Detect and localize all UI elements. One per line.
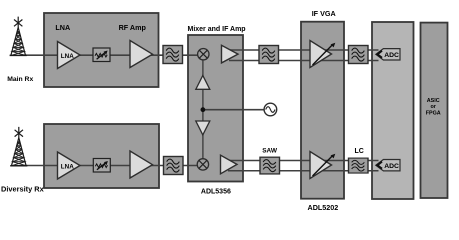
- amplifier: IF VGA (diversity): [310, 152, 332, 179]
- amplifier: IF amp (main): [222, 45, 239, 63]
- svg-text:Mixer and IF Amp: Mixer and IF Amp: [188, 26, 246, 33]
- svg-text:ADL5356: ADL5356: [201, 188, 231, 195]
- attenuator (main): [93, 48, 110, 62]
- svg-text:Main Rx: Main Rx: [7, 76, 33, 83]
- amplifier: LNA (main): [58, 42, 81, 69]
- attenuator (diversity): [93, 159, 110, 173]
- amplifier: LNA (diversity): [58, 152, 81, 179]
- amplifier: IF amp (diversity): [221, 155, 238, 174]
- mixer (diversity): [197, 159, 208, 170]
- svg-text:RF Amp: RF Amp: [119, 23, 147, 32]
- svg-text:IF VGA: IF VGA: [312, 9, 336, 18]
- oscillator: LO: [264, 103, 277, 116]
- svg-text:LNA: LNA: [61, 53, 74, 60]
- filter: anti-alias (main): [349, 46, 369, 64]
- block: ADC container: [372, 22, 414, 199]
- wire: LO chain vertical: [202, 58, 204, 159]
- block: Mixer and IF Amp ADL5356: [188, 35, 243, 182]
- antenna: Main Rx: [10, 17, 27, 56]
- svg-text:LNA: LNA: [61, 164, 74, 171]
- amplifier: IF VGA (main): [310, 41, 332, 68]
- filter: RF bandpass (diversity): [164, 157, 184, 175]
- node: LO junction: [201, 107, 206, 112]
- filter: SAW (diversity): [260, 157, 280, 174]
- svg-text:FPGA: FPGA: [426, 111, 441, 117]
- filter: LC (diversity): [349, 158, 369, 173]
- block: LNA / RF Amp (diversity): [44, 124, 159, 188]
- svg-text:SAW: SAW: [262, 147, 278, 154]
- amplifier: RF Amp (main): [130, 41, 153, 68]
- block: IF VGA ADL5202: [301, 22, 344, 199]
- wire: diversity IF differential pair: [228, 161, 379, 171]
- svg-text:Diversity Rx: Diversity Rx: [1, 184, 45, 193]
- filter: IF bandpass (main): [259, 46, 279, 64]
- ADC (diversity): [376, 160, 400, 171]
- amplifier: LO buffer down: [196, 121, 210, 135]
- svg-text:or: or: [430, 104, 436, 110]
- svg-text:ADL5202: ADL5202: [308, 203, 339, 212]
- svg-text:LC: LC: [355, 148, 364, 155]
- amplifier: RF Amp (diversity): [130, 151, 153, 178]
- wire: main IF differential pair: [229, 50, 379, 61]
- svg-text:LNA: LNA: [55, 23, 70, 32]
- mixer (main): [198, 49, 209, 60]
- amplifier: LO buffer up: [196, 75, 210, 89]
- wire: LO feed horizontal: [203, 109, 265, 111]
- block: ASIC or FPGA: [421, 23, 448, 198]
- block: LNA / RF Amp (main): [44, 13, 159, 87]
- antenna: Diversity Rx: [10, 127, 27, 166]
- wire: main Rx input line: [22, 54, 198, 56]
- filter: RF bandpass (main): [163, 46, 183, 64]
- ADC (main): [376, 49, 400, 60]
- wire: diversity Rx input line: [22, 165, 198, 167]
